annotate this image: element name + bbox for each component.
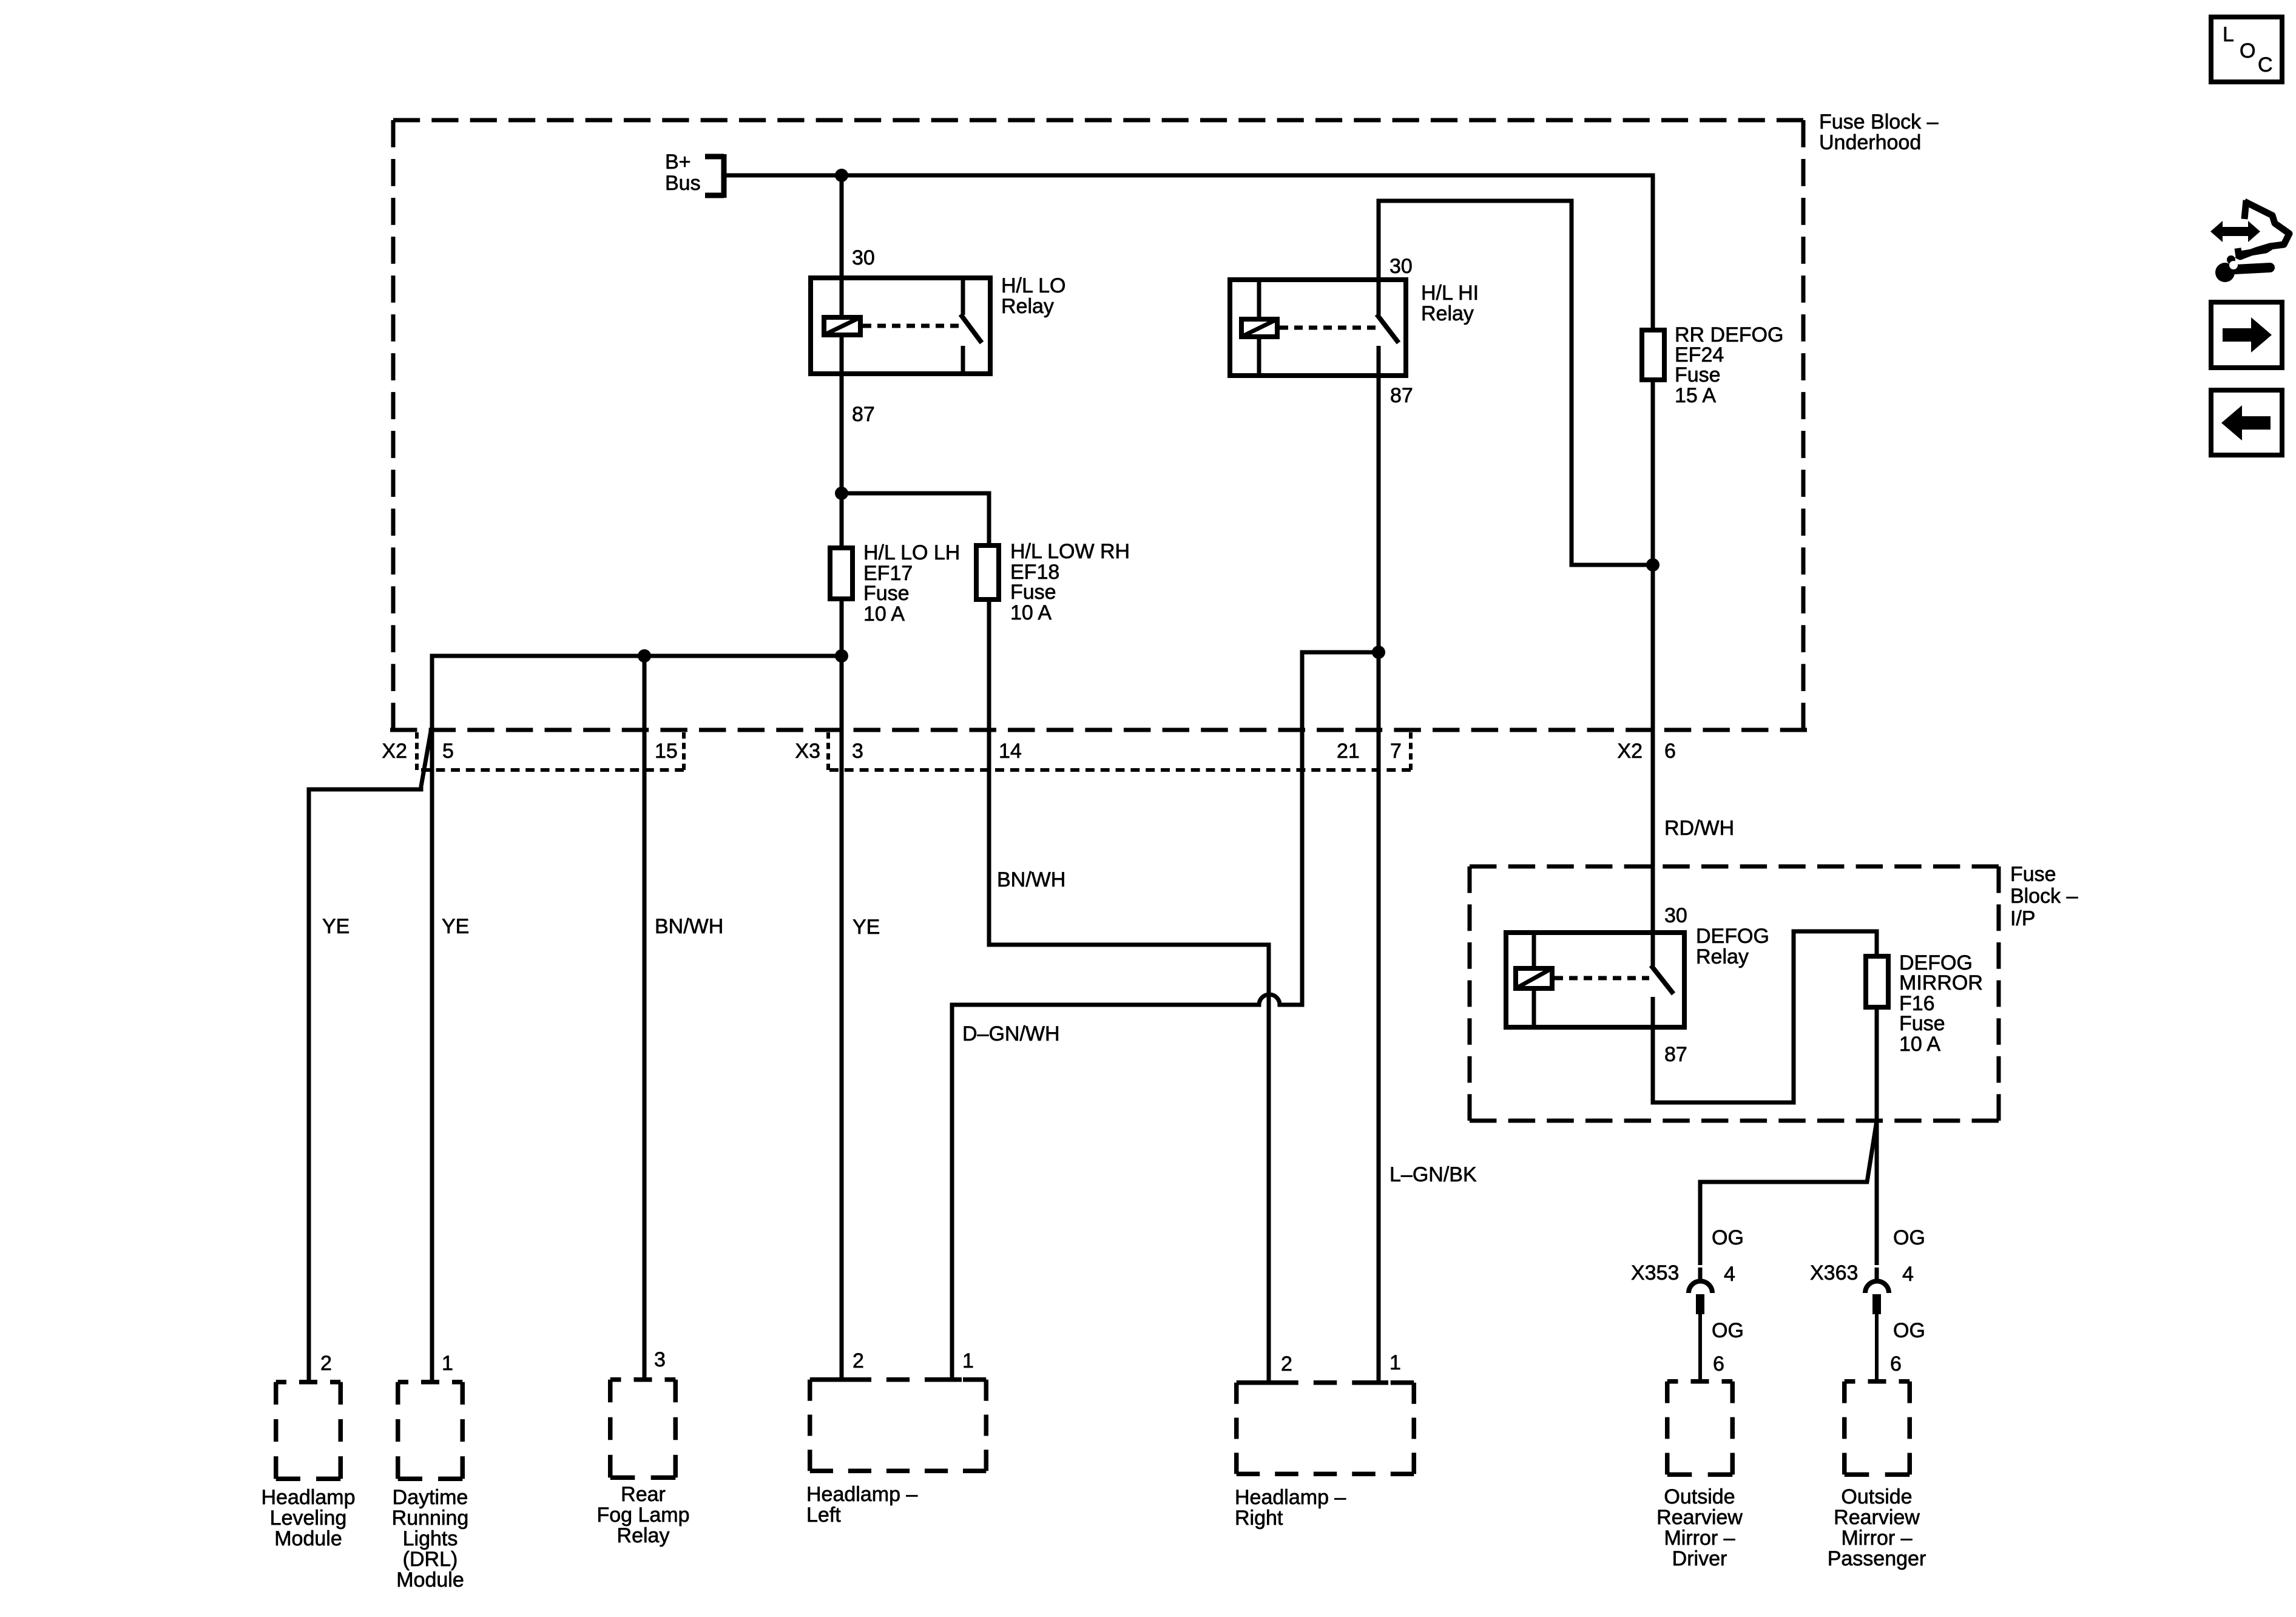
svg-text:H/L LO: H/L LO (1001, 274, 1065, 297)
svg-text:Headlamp –: Headlamp – (1235, 1486, 1346, 1509)
svg-text:Relay: Relay (1696, 945, 1749, 968)
svg-text:DEFOG: DEFOG (1696, 925, 1769, 948)
relay H/L LO coil (824, 317, 860, 335)
relay H/L HI coil (1241, 319, 1277, 337)
relay H/L HI switch (1377, 278, 1381, 315)
wire rear fog lamp relay (BN/WH pin 15) (643, 730, 647, 1377)
node EF24 output / H/L HI 30 (1646, 558, 1660, 572)
svg-text:30: 30 (1664, 904, 1687, 927)
outside rearview mirror driver label (1656, 1485, 1743, 1570)
svg-text:Fog Lamp: Fog Lamp (596, 1504, 689, 1527)
connector X363 labels (1810, 1226, 1925, 1376)
svg-text:C: C (2258, 53, 2273, 76)
svg-text:21: 21 (1337, 740, 1360, 763)
relay DEFOG switch (1651, 930, 1655, 966)
svg-text:Headlamp –: Headlamp – (806, 1483, 917, 1506)
svg-text:Fuse: Fuse (2010, 863, 2056, 886)
relay DEFOG coil feed line (1532, 930, 1536, 1030)
svg-text:87: 87 (1664, 1043, 1687, 1066)
fuse F16 label (1899, 951, 1983, 1056)
svg-text:Module: Module (274, 1527, 342, 1550)
svg-text:BN/WH: BN/WH (655, 915, 723, 938)
wire bus to H/L LO relay pin 30 (840, 175, 844, 276)
svg-text:MIRROR: MIRROR (1899, 971, 1983, 994)
svg-text:15 A: 15 A (1675, 384, 1716, 407)
svg-text:6: 6 (1713, 1352, 1724, 1376)
svg-text:5: 5 (442, 740, 454, 763)
service icon part outline (2237, 200, 2289, 257)
rear fog lamp relay label (596, 1483, 689, 1547)
fuse EF17 (830, 548, 853, 599)
fuse EF17 label (863, 541, 960, 626)
wire H/L HI 87 to pin 7 and headlamp right pin 1 (L-GN/BK) (1377, 377, 1381, 1380)
connector X353 (1689, 1281, 1712, 1380)
connector divider X2 (415, 732, 419, 770)
svg-text:14: 14 (999, 740, 1022, 763)
relay DEFOG label (1696, 925, 1769, 968)
svg-text:Leveling: Leveling (270, 1507, 347, 1530)
svg-text:Lights: Lights (403, 1527, 458, 1550)
svg-text:Rearview: Rearview (1656, 1506, 1743, 1529)
svg-text:Running: Running (392, 1507, 469, 1530)
svg-text:2: 2 (1281, 1352, 1292, 1376)
svg-text:Fuse: Fuse (1899, 1012, 1945, 1035)
svg-text:Rear: Rear (621, 1483, 666, 1506)
svg-text:Bus: Bus (665, 172, 701, 195)
connector divider 15 (682, 732, 686, 770)
wire EF18 to BN/WH jog to headlamp right pin 2 (989, 601, 1269, 1380)
svg-text:Fuse: Fuse (1675, 363, 1721, 387)
svg-text:H/L LOW RH: H/L LOW RH (1010, 540, 1130, 563)
outside rearview mirror passenger label (1828, 1485, 1926, 1570)
node EF17/EF18 branch (835, 487, 848, 500)
wire B+ bus to EF24 fuse (726, 175, 1653, 328)
svg-text:4: 4 (1902, 1263, 1914, 1286)
svg-text:Mirror –: Mirror – (1664, 1527, 1735, 1550)
svg-text:Passenger: Passenger (1828, 1547, 1926, 1570)
relay H/L LO label (1001, 274, 1065, 318)
svg-text:O: O (2240, 39, 2255, 62)
service icon wrench (2215, 255, 2270, 282)
svg-text:Underhood: Underhood (1819, 131, 1921, 154)
svg-text:6: 6 (1664, 740, 1676, 763)
svg-text:H/L HI: H/L HI (1421, 282, 1479, 305)
svg-text:X363: X363 (1810, 1261, 1858, 1284)
wire F16 to X363 connector (OG) (1875, 1010, 1879, 1280)
svg-text:3: 3 (654, 1348, 666, 1371)
svg-text:(DRL): (DRL) (403, 1548, 458, 1571)
fuse EF24 label (1675, 323, 1783, 407)
svg-text:6: 6 (1890, 1352, 1902, 1376)
fuse F16 (1866, 956, 1888, 1007)
svg-text:10 A: 10 A (863, 603, 905, 626)
headlamp left label (806, 1483, 917, 1527)
wire EF24 to DEFOG relay 30 (RD/WH) (1651, 382, 1655, 930)
wire branch to EF18 fuse (842, 493, 989, 543)
svg-text:B+: B+ (665, 150, 691, 174)
svg-text:Mirror –: Mirror – (1841, 1527, 1912, 1550)
svg-text:Right: Right (1235, 1507, 1283, 1530)
svg-text:2: 2 (320, 1352, 332, 1375)
svg-text:YE: YE (442, 915, 469, 938)
back arrow icon box (2211, 390, 2282, 455)
fuse block I/P dashed box (1470, 865, 1999, 869)
wire pin5 diagonal to headlamp leveling module (309, 728, 431, 1380)
svg-text:OG: OG (1893, 1226, 1925, 1249)
wire branch to pin 5 and DRL module (432, 656, 842, 1380)
outside rearview mirror driver box (1667, 1379, 1733, 1384)
headlamp left box (810, 1377, 987, 1382)
daytime running lights module box (398, 1380, 463, 1385)
svg-text:Block –: Block – (2010, 885, 2078, 908)
connector X363 (1865, 1281, 1889, 1380)
svg-text:10 A: 10 A (1010, 601, 1052, 624)
wire pin15 upper stub inside fuse block (643, 656, 647, 730)
svg-text:1: 1 (962, 1349, 974, 1372)
service icon double arrow (2210, 221, 2260, 242)
svg-text:1: 1 (442, 1352, 453, 1375)
svg-text:OG: OG (1712, 1226, 1744, 1249)
relay DEFOG coil (1516, 968, 1552, 988)
svg-text:Rearview: Rearview (1834, 1506, 1920, 1529)
wire entry dashes on module box top edges (831, 1380, 1388, 1383)
svg-text:X3: X3 (795, 740, 820, 763)
svg-text:7: 7 (1390, 740, 1402, 763)
node rear fog branch (638, 649, 651, 663)
wire EF17 to headlamp left pin 2 (YE) (840, 601, 844, 1377)
svg-text:Left: Left (806, 1504, 841, 1527)
svg-text:Headlamp: Headlamp (262, 1486, 356, 1509)
relay H/L HI actuating dashed link (1280, 326, 1376, 330)
svg-text:YE: YE (853, 916, 880, 939)
B+ bus terminal bracket (705, 154, 724, 198)
fuse EF24 (1642, 330, 1664, 380)
svg-text:Relay: Relay (617, 1524, 670, 1547)
fuse EF18 label (1010, 540, 1130, 624)
connector divider 7 (1409, 732, 1413, 770)
relay DEFOG box (1506, 933, 1684, 1027)
relay H/L HI box (1230, 280, 1406, 376)
svg-text:30: 30 (852, 246, 875, 269)
relay H/L LO actuating dashed link (863, 324, 962, 328)
svg-text:87: 87 (852, 403, 875, 426)
connector divider X3 (826, 732, 830, 770)
headlamp right label (1235, 1486, 1346, 1530)
wire branch to X353 connector (OG) (1700, 1121, 1877, 1280)
LOC icon box (2211, 17, 2282, 82)
B+ bus label (665, 150, 701, 195)
svg-text:H/L LO LH: H/L LO LH (863, 541, 960, 564)
svg-text:Outside: Outside (1841, 1485, 1912, 1508)
fuse EF18 (976, 545, 999, 599)
svg-text:L–GN/BK: L–GN/BK (1389, 1163, 1477, 1186)
connector X353 labels (1631, 1226, 1744, 1376)
svg-text:Relay: Relay (1421, 302, 1474, 325)
node DRL branch (835, 649, 848, 663)
svg-text:3: 3 (852, 740, 863, 763)
svg-text:YE: YE (322, 915, 349, 938)
node bus / H/L LO relay 30 (835, 169, 848, 182)
svg-text:Outside: Outside (1664, 1485, 1735, 1508)
relay H/L HI label (1421, 282, 1479, 325)
svg-text:OG: OG (1893, 1319, 1925, 1342)
svg-text:10 A: 10 A (1899, 1033, 1940, 1056)
wire H/L LO 87 to EF17 fuse (840, 376, 844, 547)
wire DEFOG 87 to F16 fuse (1653, 931, 1877, 1102)
svg-text:RD/WH: RD/WH (1664, 817, 1734, 840)
fuse block underhood dashed box (391, 120, 396, 730)
svg-text:X353: X353 (1631, 1261, 1679, 1284)
svg-text:2: 2 (853, 1349, 864, 1372)
svg-text:X2: X2 (382, 740, 407, 763)
svg-text:Fuse: Fuse (863, 582, 910, 605)
node pin21 branch (1372, 646, 1385, 659)
svg-text:15: 15 (655, 740, 678, 763)
svg-text:L: L (2223, 23, 2234, 46)
svg-text:OG: OG (1712, 1319, 1744, 1342)
svg-text:Relay: Relay (1001, 295, 1054, 318)
outside rearview mirror passenger box (1845, 1379, 1910, 1384)
svg-text:BN/WH: BN/WH (997, 868, 1065, 891)
relay H/L LO box (811, 278, 990, 374)
svg-text:D–GN/WH: D–GN/WH (962, 1022, 1060, 1045)
headlamp leveling module label (262, 1486, 356, 1550)
svg-text:87: 87 (1390, 384, 1413, 407)
relay H/L LO coil feed line (840, 276, 844, 376)
svg-text:Daytime: Daytime (393, 1486, 468, 1509)
connector row lower dotted line right (829, 768, 1411, 772)
svg-text:X2: X2 (1617, 740, 1643, 763)
daytime running lights module label (392, 1486, 469, 1592)
connector row lower dotted line left (421, 768, 684, 772)
rear fog lamp relay box (610, 1377, 676, 1382)
svg-text:1: 1 (1389, 1351, 1401, 1374)
svg-text:Fuse Block –: Fuse Block – (1819, 110, 1939, 133)
fuse block underhood label (1819, 110, 1939, 154)
svg-text:Driver: Driver (1672, 1547, 1727, 1570)
svg-text:4: 4 (1724, 1263, 1735, 1286)
relay DEFOG actuating dashed link (1555, 976, 1649, 981)
headlamp leveling module box (276, 1380, 341, 1385)
forward arrow icon box (2211, 302, 2282, 368)
headlamp right box (1237, 1380, 1414, 1385)
svg-text:Fuse: Fuse (1010, 581, 1056, 604)
svg-text:I/P: I/P (2010, 907, 2036, 930)
relay H/L LO switch (961, 276, 965, 315)
wire branch pin 21 to headlamp left pin 1 (D-GN/WH) with hop (952, 652, 1379, 1377)
wire H/L HI relay 30 feed (1379, 201, 1653, 565)
svg-text:30: 30 (1389, 255, 1413, 278)
connector row long dash line (390, 728, 1807, 732)
fuse block I/P label (2010, 863, 2078, 930)
relay H/L HI coil feed line (1257, 278, 1261, 377)
svg-text:Module: Module (396, 1568, 464, 1592)
